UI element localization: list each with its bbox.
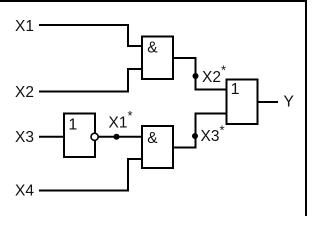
- input label X2: [15, 84, 34, 101]
- input label X1: [15, 18, 34, 35]
- inverter gate (1): [64, 114, 95, 158]
- node label X3*: [201, 122, 225, 145]
- OR gate (1): [227, 80, 258, 125]
- junction dot node X2*: [193, 73, 199, 79]
- junction dot node X1*: [114, 134, 120, 140]
- junction dot node X3*: [192, 133, 198, 139]
- AND gate lower (&): [142, 126, 173, 168]
- AND gate upper (&): [142, 37, 173, 80]
- svg-text:X3: X3: [201, 128, 220, 145]
- wire lower AND output node X3* to OR gate lower input: [173, 114, 227, 148]
- input label X3: [15, 129, 34, 146]
- svg-text:&: &: [147, 130, 158, 147]
- svg-text:X2: X2: [15, 84, 34, 101]
- svg-text:X1: X1: [15, 18, 34, 35]
- inverter output negation bubble: [91, 133, 98, 140]
- wire X4 to lower AND gate input: [39, 159, 142, 191]
- wire X2 to AND gate lower input: [39, 69, 142, 92]
- wire OR gate output to Y: [258, 101, 278, 103]
- svg-text:*: *: [128, 108, 133, 123]
- svg-text:Y: Y: [284, 94, 294, 111]
- node label X2*: [202, 62, 226, 86]
- svg-text:&: &: [147, 40, 158, 57]
- node label X1*: [109, 108, 133, 132]
- svg-text:X3: X3: [15, 129, 34, 146]
- wire inverter output node X1* to lower AND gate: [99, 136, 142, 138]
- svg-text:X2: X2: [202, 69, 221, 86]
- wire AND output node X2* to OR gate upper input: [173, 58, 227, 90]
- input label X4: [15, 183, 34, 200]
- wire X1 to AND gate upper input: [39, 25, 142, 46]
- wire X3 to inverter input: [39, 136, 64, 138]
- svg-text:X1: X1: [109, 115, 128, 132]
- svg-text:X4: X4: [15, 183, 34, 200]
- svg-text:*: *: [221, 62, 226, 77]
- svg-text:1: 1: [68, 117, 77, 134]
- svg-text:*: *: [220, 122, 225, 137]
- svg-text:1: 1: [231, 81, 240, 98]
- output label Y: [284, 94, 294, 111]
